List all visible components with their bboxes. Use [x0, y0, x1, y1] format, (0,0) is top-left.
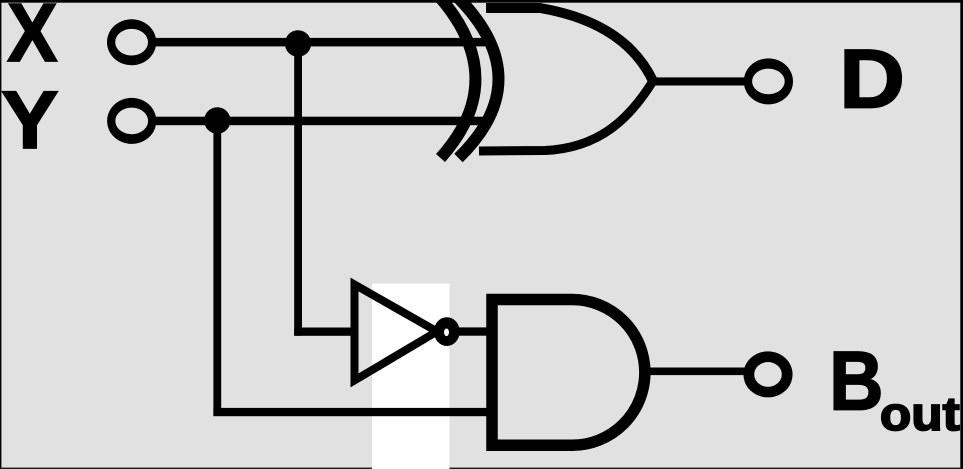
svg-text:X: X: [7, 0, 57, 79]
svg-text:D: D: [839, 33, 905, 126]
wire Y branch vertical: [213, 120, 221, 416]
junction X node: [285, 30, 311, 56]
NOT gate: [355, 285, 460, 381]
XOR gate input arc outer: [441, 0, 476, 158]
output terminal D: [744, 58, 793, 104]
svg-text:out: out: [880, 388, 960, 441]
svg-text:B: B: [829, 334, 883, 428]
junction Y node: [204, 107, 230, 133]
wire X branch vertical: [294, 43, 302, 336]
XOR gate body: [459, 0, 654, 158]
highlight band: [372, 284, 450, 469]
output terminal Bout: [743, 351, 792, 397]
input terminal Y: [107, 98, 156, 144]
wire X horizontal: [150, 38, 488, 47]
svg-text:Y: Y: [1, 74, 58, 165]
input terminal X: [107, 19, 156, 65]
wire X branch to NOT: [294, 328, 357, 336]
wire Y horizontal: [150, 117, 486, 126]
AND gate: [492, 300, 645, 446]
wire Y branch to AND: [213, 408, 495, 416]
wire NOT output: [456, 327, 496, 335]
wire AND output: [644, 368, 748, 376]
wire XOR output: [650, 77, 748, 85]
